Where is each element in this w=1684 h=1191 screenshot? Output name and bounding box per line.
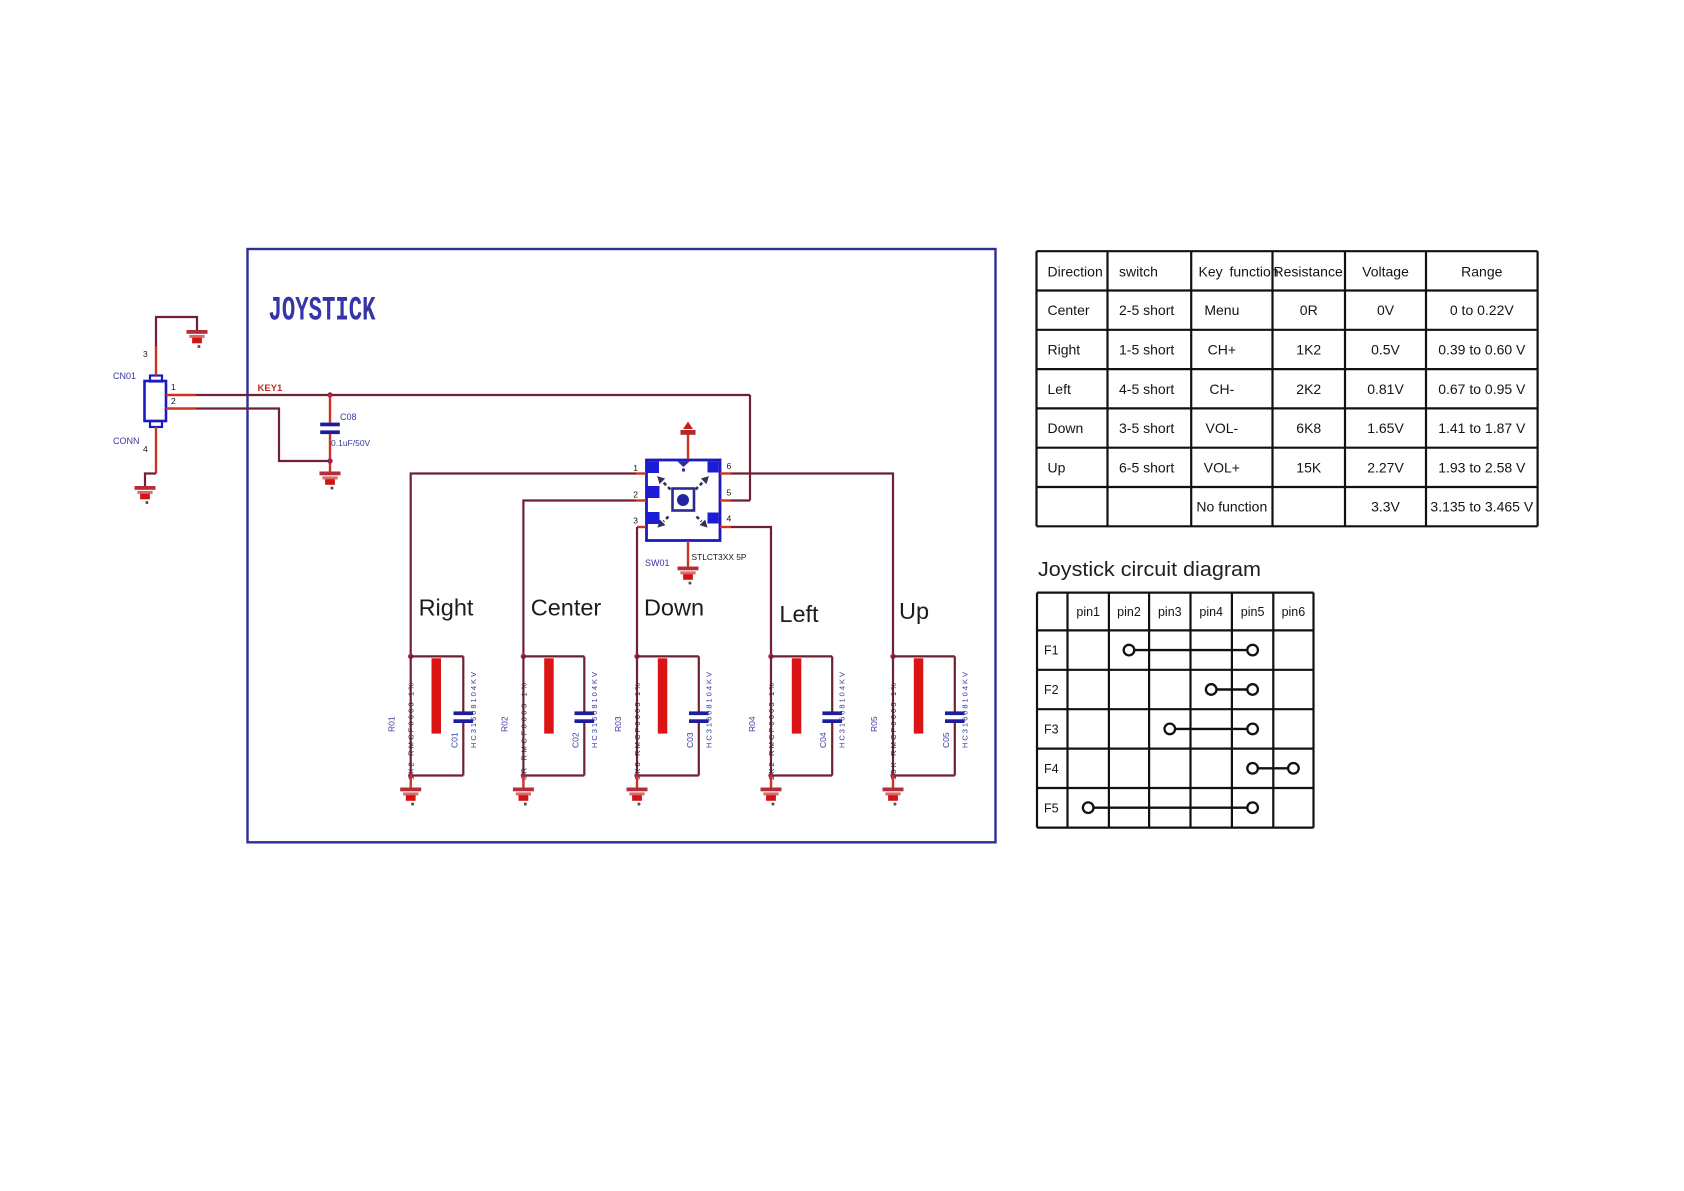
svg-text:F5: F5 (1044, 801, 1059, 815)
node junction C08 bottom (327, 458, 332, 463)
svg-text:Down: Down (644, 595, 704, 621)
svg-text:Center: Center (1048, 302, 1090, 318)
wire KEY1 net: CN01 pin1 to SW01 pin5 (166, 395, 750, 501)
pin 5 stub (720, 499, 731, 501)
svg-text:VOL+: VOL+ (1204, 459, 1240, 475)
wire Center ground stem (522, 776, 524, 788)
svg-text:Joystick circuit diagram: Joystick circuit diagram (1038, 559, 1261, 581)
svg-text:1: 1 (633, 463, 638, 473)
ground (Center network) (513, 788, 534, 806)
ground (C08) (320, 472, 341, 490)
svg-text:0.5V: 0.5V (1371, 341, 1400, 357)
ground (CN01 pin4) (135, 486, 156, 504)
svg-text:pin3: pin3 (1158, 605, 1182, 619)
svg-text:2K2: 2K2 (1296, 381, 1321, 397)
node junction Right top (408, 654, 413, 659)
svg-text:1K2: 1K2 (1296, 341, 1321, 357)
svg-text:CN01: CN01 (113, 371, 136, 381)
svg-text:function: function (1230, 264, 1279, 280)
wire SW01 pin2 to Center network (523, 501, 636, 657)
switch contact F5 pin1-pin5 (1083, 802, 1258, 813)
wire Center network rails (523, 656, 584, 775)
svg-text:5: 5 (727, 488, 732, 498)
svg-text:R04: R04 (747, 716, 757, 732)
svg-text:Menu: Menu (1204, 302, 1239, 318)
svg-text:F1: F1 (1044, 644, 1059, 658)
svg-text:Up: Up (1048, 459, 1066, 475)
wire Down ground stem (636, 776, 638, 788)
wire Right ground stem (410, 776, 412, 788)
connector CN01 (145, 376, 167, 428)
wire Up ground stem (892, 776, 894, 788)
svg-text:pin6: pin6 (1282, 605, 1306, 619)
joystick switch SW01 (647, 460, 721, 541)
svg-text:2.27V: 2.27V (1367, 459, 1404, 475)
svg-text:C02: C02 (570, 732, 580, 748)
svg-text:JOYSTICK: JOYSTICK (269, 293, 376, 331)
wire SW01 pin6 to Up network (731, 474, 893, 657)
svg-text:F3: F3 (1044, 722, 1059, 736)
wire SW01 pin1 to Right network (411, 474, 636, 657)
svg-text:Resistance: Resistance (1274, 264, 1343, 280)
node junction Up bottom (890, 773, 895, 778)
svg-text:C05: C05 (941, 732, 951, 748)
resistor R03 (658, 658, 668, 733)
node junction Down top (634, 654, 639, 659)
svg-text:1.93 to 2.58 V: 1.93 to 2.58 V (1438, 459, 1526, 475)
capacitor C02 (575, 711, 595, 723)
svg-text:Right: Right (1048, 341, 1081, 357)
svg-text:switch: switch (1119, 264, 1158, 280)
wire CN01 pin2 to ground/C08 (166, 409, 330, 462)
wire CN01 pin3 to ground (156, 317, 197, 376)
svg-text:pin1: pin1 (1076, 605, 1100, 619)
svg-text:0R RMCF0603 1%: 0R RMCF0603 1% (519, 683, 528, 780)
wire CN01 pin4 to ground (145, 427, 156, 486)
pin 1 stub (636, 472, 646, 474)
capacitor C04 (822, 711, 842, 723)
table: pin connection matrix (1037, 593, 1314, 828)
svg-text:C01: C01 (449, 732, 459, 748)
svg-text:STLCT3XX 5P: STLCT3XX 5P (692, 552, 747, 562)
pin 6 stub (720, 472, 731, 474)
svg-text:F2: F2 (1044, 683, 1059, 697)
svg-text:Direction: Direction (1048, 264, 1103, 280)
node junction Center bottom (521, 773, 526, 778)
pin 2 stub (636, 499, 646, 501)
svg-text:pin4: pin4 (1199, 605, 1223, 619)
capacitor C05 (945, 711, 965, 723)
svg-text:2-5 short: 2-5 short (1119, 302, 1174, 318)
svg-text:Right: Right (419, 595, 474, 621)
svg-text:3-5 short: 3-5 short (1119, 420, 1174, 436)
svg-text:Center: Center (531, 595, 602, 621)
ground (Left network) (761, 788, 782, 806)
svg-text:0R: 0R (1300, 302, 1318, 318)
power flag VCC above SW01 (681, 422, 696, 460)
svg-text:No function: No function (1196, 499, 1267, 515)
svg-text:1: 1 (171, 382, 176, 392)
switch contact F3 pin3-pin5 (1165, 724, 1258, 735)
svg-text:CONN: CONN (113, 436, 140, 446)
svg-text:Voltage: Voltage (1362, 264, 1409, 280)
node junction C08 top (327, 392, 332, 397)
node junction Down bottom (634, 773, 639, 778)
switch contact F2 pin4-pin5 (1206, 684, 1258, 695)
svg-text:6: 6 (727, 461, 732, 471)
resistor R01 (432, 658, 442, 733)
svg-text:R02: R02 (499, 716, 509, 732)
svg-text:6-5 short: 6-5 short (1119, 459, 1174, 475)
wire Left ground stem (770, 776, 772, 788)
resistor R02 (544, 658, 554, 733)
svg-text:KEY1: KEY1 (258, 383, 284, 394)
ground (Up network) (883, 788, 904, 806)
resistor R04 (792, 658, 802, 733)
svg-text:Down: Down (1048, 420, 1084, 436)
wire SW01 pin3 to Down network (636, 527, 638, 656)
node junction Up top (890, 654, 895, 659)
svg-text:Left: Left (779, 601, 819, 627)
svg-text:Up: Up (899, 598, 929, 624)
svg-text:C08: C08 (340, 412, 357, 422)
svg-text:15K: 15K (1296, 459, 1322, 475)
svg-text:R01: R01 (387, 716, 397, 732)
svg-text:VOL-: VOL- (1206, 420, 1239, 436)
svg-text:0.67 to 0.95 V: 0.67 to 0.95 V (1438, 381, 1526, 397)
svg-text:3.3V: 3.3V (1371, 499, 1400, 515)
svg-text:pin2: pin2 (1117, 605, 1141, 619)
wire Left network rails (771, 656, 832, 775)
switch contact F1 pin2-pin5 (1124, 645, 1258, 656)
node junction Left bottom (768, 773, 773, 778)
svg-text:CH-: CH- (1209, 381, 1234, 397)
wire Right network rails (411, 656, 464, 775)
svg-text:3: 3 (633, 516, 638, 526)
svg-text:1-5 short: 1-5 short (1119, 341, 1174, 357)
svg-text:SW01: SW01 (645, 558, 670, 568)
svg-text:0.81V: 0.81V (1367, 381, 1404, 397)
svg-text:6K8: 6K8 (1296, 420, 1321, 436)
svg-text:1.65V: 1.65V (1367, 420, 1404, 436)
svg-text:F4: F4 (1044, 762, 1059, 776)
node junction Right bottom (408, 773, 413, 778)
svg-text:pin5: pin5 (1241, 605, 1265, 619)
pin 3 stub (637, 526, 646, 528)
wire Up network rails (893, 656, 955, 775)
svg-text:Range: Range (1461, 264, 1502, 280)
svg-text:1.41 to 1.87 V: 1.41 to 1.87 V (1438, 420, 1526, 436)
svg-text:0.39 to 0.60 V: 0.39 to 0.60 V (1438, 341, 1526, 357)
wire Down network rails (637, 656, 699, 775)
wire SW01 bottom pin to ground (687, 541, 689, 567)
svg-text:3: 3 (143, 349, 148, 359)
svg-text:2: 2 (171, 396, 176, 406)
svg-text:4-5 short: 4-5 short (1119, 381, 1174, 397)
svg-text:R05: R05 (869, 716, 879, 732)
ground (Right network) (400, 788, 421, 806)
svg-text:0V: 0V (1377, 302, 1395, 318)
ground (CN01 pin3) (187, 330, 208, 348)
svg-text:Left: Left (1048, 381, 1071, 397)
svg-text:Key: Key (1199, 264, 1223, 280)
pin 4 stub (720, 526, 731, 528)
svg-text:4: 4 (143, 444, 148, 454)
svg-text:R03: R03 (613, 716, 623, 732)
svg-text:0 to 0.22V: 0 to 0.22V (1450, 302, 1514, 318)
svg-text:0.1uF/50V: 0.1uF/50V (331, 438, 371, 448)
ground (SW01) (678, 567, 699, 585)
capacitor C01 (454, 711, 474, 723)
switch contact F4 pin5-pin6 (1247, 763, 1298, 774)
svg-text:C04: C04 (818, 732, 828, 748)
node junction Left top (768, 654, 773, 659)
node junction Center top (521, 654, 526, 659)
svg-text:4: 4 (727, 514, 732, 524)
capacitor C08 (320, 395, 340, 472)
wire SW01 pin4 to Left network (731, 527, 771, 656)
table: key function / resistance / voltage ranges (1037, 251, 1538, 526)
svg-text:C03: C03 (685, 732, 695, 748)
svg-text:3.135 to 3.465 V: 3.135 to 3.465 V (1430, 499, 1533, 515)
resistor R05 (914, 658, 924, 733)
capacitor C03 (689, 711, 709, 723)
svg-text:CH+: CH+ (1208, 341, 1236, 357)
svg-text:2: 2 (633, 490, 638, 500)
ground (Down network) (627, 788, 648, 806)
